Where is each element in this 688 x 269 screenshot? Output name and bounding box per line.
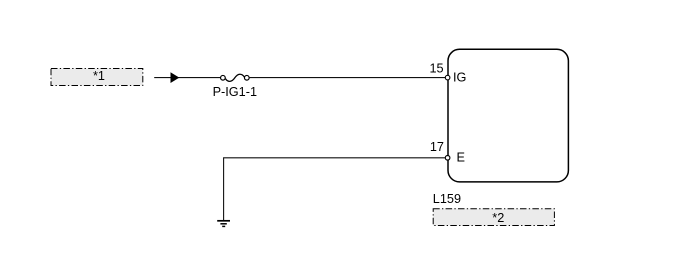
pin 17 terminal [445, 156, 450, 161]
wire from fuse to pin 15 [249, 77, 445, 79]
pin 15 terminal [445, 75, 450, 80]
ground [217, 221, 230, 227]
svg-text:IG: IG [453, 70, 466, 84]
pin number 15 [429, 62, 443, 76]
svg-text:L159: L159 [433, 192, 461, 206]
wire from *1 to fuse [154, 77, 220, 79]
svg-text:17: 17 [430, 140, 444, 154]
fuse P-IG1-1 (symbol) [221, 74, 250, 81]
pin name E [457, 151, 465, 165]
label P-IG1-1 [213, 85, 257, 99]
reference box *2 (component name placeholder) [433, 209, 554, 226]
reference box *1 (power source placeholder) [51, 69, 143, 86]
svg-text:E: E [457, 151, 465, 165]
svg-text:15: 15 [429, 62, 443, 76]
svg-text:P-IG1-1: P-IG1-1 [213, 85, 257, 99]
pin name IG [453, 70, 466, 84]
wire from pin 17 to ground [224, 158, 446, 220]
svg-text:*1: *1 [93, 69, 105, 83]
pin number 17 [430, 140, 444, 154]
svg-text:*2: *2 [492, 211, 504, 225]
label L159 [433, 192, 461, 206]
connector box L159 [448, 49, 568, 182]
current-flow arrow [171, 72, 180, 83]
